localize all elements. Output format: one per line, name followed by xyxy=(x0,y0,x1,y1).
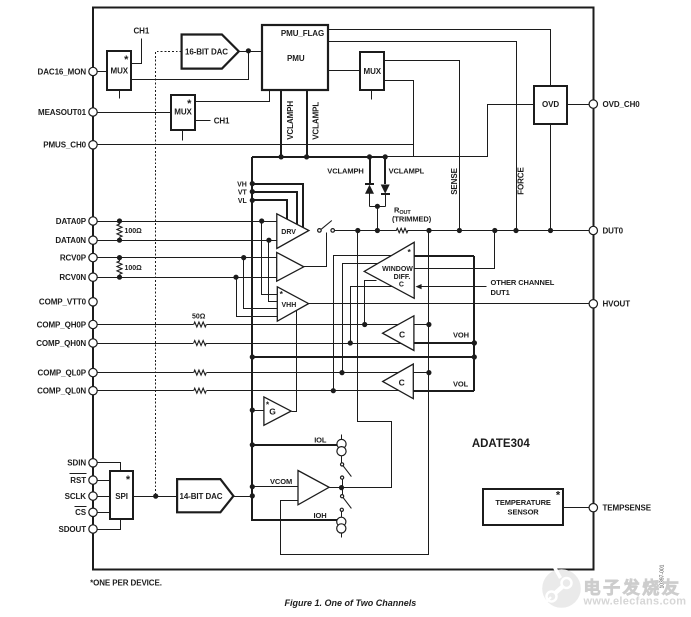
switch S2 pole a xyxy=(341,463,344,466)
svg-text:TEMPERATURE: TEMPERATURE xyxy=(495,498,551,507)
node DAC16 output junction xyxy=(246,48,251,53)
svg-text:OVD_CH0: OVD_CH0 xyxy=(603,100,641,109)
svg-text:VCLAMPL: VCLAMPL xyxy=(311,102,320,140)
svg-text:DAC16_MON: DAC16_MON xyxy=(38,67,87,76)
svg-text:VOH: VOH xyxy=(453,331,469,340)
pin MEASOUT01 xyxy=(38,108,97,117)
wire S2 to VCOM node xyxy=(342,480,344,488)
node DUT0 line x357.8 xyxy=(355,228,360,233)
pin COMP_QH0P xyxy=(37,320,98,329)
svg-text:电子发烧友: 电子发烧友 xyxy=(584,578,682,598)
wire RCV0P branch to VHH xyxy=(244,258,278,309)
label IOH xyxy=(314,511,327,520)
switch S3 lever xyxy=(343,498,351,509)
wire level bus to G xyxy=(253,410,264,412)
node RCV0P branch xyxy=(241,255,246,260)
svg-text:VT: VT xyxy=(238,189,248,196)
wire VCOM node to S3 xyxy=(342,490,344,495)
wire 14-BIT DAC to level bus xyxy=(234,496,253,498)
window comparator U4 xyxy=(364,242,414,298)
resistor R3 Rout trimmed xyxy=(392,205,432,232)
label VCOM xyxy=(270,477,292,486)
wire WD input from feedback bus xyxy=(414,255,474,257)
wire diode join to DUT0 line xyxy=(377,207,379,231)
wire DUT0 comparator feed loop xyxy=(281,231,429,555)
svg-text:IOL: IOL xyxy=(314,435,327,444)
svg-text:VH: VH xyxy=(237,181,247,188)
node WD tap B to COMP_QL0P xyxy=(339,370,344,375)
wire OVD bottom to DUT0 line xyxy=(550,124,552,231)
wire RST to SPI xyxy=(98,480,110,482)
node R2 bottom xyxy=(117,275,122,280)
svg-text:SENSE: SENSE xyxy=(450,167,459,194)
pin COMP_QH0N xyxy=(36,339,97,348)
wire VH to DRV xyxy=(252,184,303,228)
svg-text:50Ω: 50Ω xyxy=(192,314,206,321)
svg-text:VCLAMPH: VCLAMPH xyxy=(286,101,295,140)
comparator U6 C xyxy=(383,364,414,399)
switch S2 pole b xyxy=(341,476,344,479)
resistor R2 100ohm xyxy=(117,258,142,278)
mux U3 bottom stub xyxy=(371,90,373,100)
switch S3 pole b xyxy=(340,508,343,511)
svg-text:CH1: CH1 xyxy=(214,116,230,125)
pin COMP_QL0N xyxy=(37,387,97,396)
label VL xyxy=(238,198,248,205)
pin SCLK xyxy=(65,492,98,501)
pin DATA0N xyxy=(55,236,97,245)
comparator feedback vertical xyxy=(473,256,475,391)
temperature sensor block xyxy=(483,489,563,525)
comparator U5 C xyxy=(383,316,414,351)
node DUT0 line x550.5 xyxy=(548,228,553,233)
svg-text:SDOUT: SDOUT xyxy=(58,525,86,534)
svg-text:COMP_QH0N: COMP_QH0N xyxy=(36,339,86,348)
wire VCLAMPH from PMU xyxy=(280,90,282,157)
wire DATA0P branch to VHH xyxy=(262,222,278,295)
svg-text:*ONE PER DEVICE.: *ONE PER DEVICE. xyxy=(90,578,162,587)
amp G xyxy=(264,397,291,425)
current source IOH xyxy=(337,517,346,537)
svg-text:VCLAMPL: VCLAMPL xyxy=(389,166,425,175)
node VOL top input xyxy=(426,370,431,375)
svg-text:HVOUT: HVOUT xyxy=(603,300,631,309)
label CH1 (top) xyxy=(134,27,150,36)
svg-text:CS: CS xyxy=(75,508,87,517)
svg-text:SENSOR: SENSOR xyxy=(508,507,540,516)
note ONE PER DEVICE xyxy=(90,578,162,587)
svg-text:100Ω: 100Ω xyxy=(125,265,143,272)
OVD block xyxy=(534,86,567,124)
svg-text:14-BIT DAC: 14-BIT DAC xyxy=(179,492,222,501)
node DUT0 line x377.4 xyxy=(375,228,380,233)
node VH xyxy=(250,181,255,186)
node DATA0N branch xyxy=(266,238,271,243)
wire MUX U1 output to DAC16 node xyxy=(132,51,249,80)
switch S3 pole a xyxy=(341,495,344,498)
wire OVD to OVD_CH0 xyxy=(568,104,590,106)
pin COMP_QL0P xyxy=(38,368,98,377)
wire level bus to IOL xyxy=(252,444,337,446)
node R2 top xyxy=(117,255,122,260)
PMU block xyxy=(262,25,328,90)
svg-text:MUX: MUX xyxy=(364,67,382,76)
node WD tap D to COMP_QH0N xyxy=(348,340,353,345)
pin DAC16_MON xyxy=(38,67,98,76)
wire COMP_QL0N row xyxy=(98,388,475,393)
outer boundary box xyxy=(93,8,593,570)
node feedback at QH0N xyxy=(472,340,477,345)
svg-text:FORCE: FORCE xyxy=(517,167,526,195)
svg-text:VHH: VHH xyxy=(282,302,297,309)
wire RCV0N row xyxy=(98,277,277,279)
svg-text:Figure 1. One of Two Channels: Figure 1. One of Two Channels xyxy=(285,598,417,608)
pin DUT0 xyxy=(589,226,624,235)
node WD tap A to COMP_QL0N xyxy=(331,388,336,393)
node DUT0 line x494.8 xyxy=(492,228,497,233)
wire diode join xyxy=(370,206,386,208)
node DAC14 at level bus xyxy=(250,493,255,498)
wire MEASOUT01 to MUX U2 xyxy=(98,112,172,114)
node VCOM input xyxy=(250,484,255,489)
svg-text:COMP_QH0P: COMP_QH0P xyxy=(37,320,87,329)
wire WD lower tap C xyxy=(365,281,377,325)
switch S1 lever xyxy=(321,221,332,230)
amp VHH xyxy=(277,287,308,321)
svg-text:MUX: MUX xyxy=(111,67,129,76)
pin SDIN xyxy=(67,459,97,468)
svg-text:CH1: CH1 xyxy=(134,27,150,36)
wire Rout to DUT0 pin xyxy=(408,230,590,232)
mux U2 xyxy=(171,95,195,130)
wire WD input from DUT0 xyxy=(415,231,495,269)
pin RCV0N xyxy=(59,273,97,282)
node R1 bottom xyxy=(117,238,122,243)
label VCLAMPH (diode) xyxy=(327,166,363,175)
svg-text:RCV0N: RCV0N xyxy=(59,273,86,282)
svg-text:*: * xyxy=(124,54,129,66)
wire RCV0N branch to VHH xyxy=(237,278,278,317)
wire MUX U3 to OVD via PMUS node xyxy=(385,81,534,157)
svg-text:VL: VL xyxy=(238,198,248,205)
wire SCLK to SPI xyxy=(98,496,110,498)
node DUT0 line x459.4 xyxy=(457,228,462,233)
watermark elecfans logo and text xyxy=(541,566,687,609)
mux U3 xyxy=(360,52,384,90)
wire CS to SPI xyxy=(98,512,110,514)
diode D3 VCLAMPL xyxy=(381,157,390,207)
svg-text:COMP_QL0P: COMP_QL0P xyxy=(38,369,87,378)
svg-text:PMU_FLAG: PMU_FLAG xyxy=(281,29,324,38)
svg-text:C: C xyxy=(399,378,405,388)
svg-text:C: C xyxy=(399,329,405,339)
wire COMP_QH0N row xyxy=(98,341,475,346)
svg-text:*: * xyxy=(187,98,192,110)
wire OTHER CHANNEL DUT1 arrow xyxy=(416,284,487,289)
16-bit DAC D1 xyxy=(182,35,239,69)
pin COMP_VTT0 xyxy=(39,298,97,307)
14-bit DAC D4 xyxy=(177,479,233,512)
wire MUX U3 to SENSE line xyxy=(385,61,460,231)
node DUT0 line x429 xyxy=(426,228,431,233)
node VCLAMPH junction xyxy=(279,154,284,159)
label ADATE304 xyxy=(472,438,531,450)
label VOL xyxy=(453,380,469,389)
wire DATA0N branch to VHH xyxy=(269,241,278,302)
pin OVD_CH0 xyxy=(589,100,640,109)
svg-text:PMU: PMU xyxy=(287,54,305,63)
svg-text:www.elecfans.com: www.elecfans.com xyxy=(583,596,687,608)
pin HVOUT xyxy=(589,300,630,309)
mux U1 xyxy=(107,51,131,90)
wire MUX U2 output to PMU bottom xyxy=(195,91,270,102)
wire VHH output to HVOUT xyxy=(309,303,590,305)
label VCLAMPH (rotated) xyxy=(286,101,295,140)
wire temperature sensor to TEMPSENSE xyxy=(564,507,590,509)
pin CS xyxy=(75,507,98,518)
pin SDOUT xyxy=(58,525,97,534)
node feedback at 357 xyxy=(472,354,477,359)
switch S2 lever xyxy=(343,466,351,477)
label IOL xyxy=(314,435,327,444)
SPI block xyxy=(110,471,133,519)
wire level bus to comparator feedback xyxy=(252,356,474,358)
node diode top L xyxy=(383,154,388,159)
wire CH1 to MUX U1 xyxy=(132,39,142,64)
svg-text:(TRIMMED): (TRIMMED) xyxy=(392,215,432,224)
wire VOL lower input thick xyxy=(413,390,474,392)
wire receiver output to switch xyxy=(304,233,327,267)
wire DAC16_MON to MUX U1 xyxy=(98,71,108,73)
svg-text:IOH: IOH xyxy=(314,511,327,520)
wire MUX U2 to CH1 xyxy=(195,120,211,122)
wire PMU_FLAG to OVD top xyxy=(328,30,551,87)
receiver amp xyxy=(277,252,304,281)
svg-text:SCLK: SCLK xyxy=(65,492,87,501)
svg-text:DIFF.: DIFF. xyxy=(394,274,411,281)
svg-text:PMUS_CH0: PMUS_CH0 xyxy=(43,141,86,150)
svg-text:VCOM: VCOM xyxy=(270,477,292,486)
mux U1 bottom stub xyxy=(119,90,121,99)
current source IOL xyxy=(337,435,346,463)
pin RCV0P xyxy=(60,253,97,262)
node VOH bottom input xyxy=(472,340,477,345)
wire DUT0 sense to VCOM node xyxy=(330,231,392,488)
label CH1 (mid) xyxy=(214,116,230,125)
node VL xyxy=(250,198,255,203)
mux U2 bottom stub xyxy=(182,130,184,141)
node VCLAMPL junction xyxy=(304,154,309,159)
svg-text:ADATE304: ADATE304 xyxy=(472,438,531,450)
wire clamp bus xyxy=(252,156,414,159)
wire DATA0N row xyxy=(98,240,277,242)
svg-text:VCLAMPH: VCLAMPH xyxy=(327,166,363,175)
wire WD upper tap A xyxy=(334,256,392,391)
svg-text:DUT0: DUT0 xyxy=(603,226,624,235)
label VT xyxy=(238,189,248,196)
amp VCOM xyxy=(298,471,329,505)
wire VCLAMPL from PMU xyxy=(306,90,308,157)
wire G output to VHH xyxy=(292,311,297,412)
label FORCE (rotated) xyxy=(517,167,526,195)
caption Figure 1 xyxy=(285,598,417,608)
svg-text:VOL: VOL xyxy=(453,380,469,389)
label VCLAMPL (diode) xyxy=(389,166,425,175)
node level bus at 357 xyxy=(250,354,255,359)
node R1 top xyxy=(117,218,122,223)
svg-text:OVD: OVD xyxy=(542,100,559,109)
wire VT to DRV xyxy=(252,192,297,224)
wire switch to Rout xyxy=(335,230,397,232)
node VT xyxy=(250,189,255,194)
label VCLAMPL (rotated) xyxy=(311,102,320,140)
wire SDOUT to SPI xyxy=(98,520,121,530)
driver DRV xyxy=(277,214,309,249)
wire RCV0P row xyxy=(98,257,277,259)
svg-text:OTHER CHANNEL: OTHER CHANNEL xyxy=(491,278,555,287)
svg-text:DATA0N: DATA0N xyxy=(55,236,86,245)
wire COMP_QH0P row xyxy=(98,322,429,327)
label VH xyxy=(237,181,247,188)
pin RST xyxy=(70,474,98,486)
wire level bus vertical xyxy=(252,157,337,520)
node WD tap C to COMP_QH0P xyxy=(362,322,367,327)
svg-text:RST: RST xyxy=(70,476,86,485)
wire SPI to 14-BIT DAC xyxy=(134,496,178,498)
svg-text:*: * xyxy=(126,474,131,486)
svg-text:COMP_QL0N: COMP_QL0N xyxy=(37,387,86,396)
wire PMU to MUX U3 xyxy=(328,70,361,72)
svg-text:100Ω: 100Ω xyxy=(125,228,143,235)
svg-text:DUT1: DUT1 xyxy=(491,288,510,297)
label OTHER CHANNEL DUT1 xyxy=(491,278,555,297)
svg-text:WINDOW: WINDOW xyxy=(382,266,413,273)
node G input xyxy=(250,408,255,413)
svg-text:*: * xyxy=(556,489,561,501)
svg-text:C: C xyxy=(399,281,404,288)
node VOH top input xyxy=(426,322,431,327)
wire S3 to IOH source xyxy=(341,512,343,518)
wire level bus to VCOM xyxy=(253,486,299,488)
node RCV0N branch xyxy=(233,275,238,280)
node DUT0 line x516 xyxy=(513,228,518,233)
svg-text:G: G xyxy=(269,407,276,417)
wire WD upper tap B xyxy=(343,264,379,373)
wire COMP_QL0P row xyxy=(98,370,429,375)
wire VOH lower input thick xyxy=(414,342,474,344)
svg-text:MEASOUT01: MEASOUT01 xyxy=(38,108,87,117)
wire WD lower tap D xyxy=(351,287,393,344)
svg-text:16-BIT DAC: 16-BIT DAC xyxy=(185,47,228,56)
svg-text:SDIN: SDIN xyxy=(67,459,86,468)
svg-text:COMP_VTT0: COMP_VTT0 xyxy=(39,298,87,307)
label SENSE (rotated) xyxy=(450,167,459,194)
node diode join xyxy=(375,204,380,209)
svg-text:RCV0P: RCV0P xyxy=(60,254,87,263)
node VCOM output junction xyxy=(339,485,344,490)
pin TEMPSENSE xyxy=(589,504,652,513)
wire 16-BIT DAC to PMU xyxy=(239,51,262,53)
label VOH xyxy=(453,331,469,340)
node DATA0P branch xyxy=(259,218,264,223)
svg-text:TEMPSENSE: TEMPSENSE xyxy=(603,504,652,513)
dashed control line SPI to 16-BIT DAC xyxy=(156,52,182,497)
svg-text:DRV: DRV xyxy=(281,229,296,236)
wire VL to DRV xyxy=(252,200,287,219)
wire PMU force to FORCE line xyxy=(328,42,517,231)
diode D2 VCLAMPH xyxy=(365,157,374,207)
node IOL tap xyxy=(250,442,255,447)
pin DATA0P xyxy=(56,217,97,226)
wire PMUS_CH0 to OVD route xyxy=(98,144,414,146)
wire DATA0P row xyxy=(98,221,277,223)
label 50ohm xyxy=(192,314,206,321)
wire SDIN to SPI xyxy=(98,463,121,472)
svg-text:SPI: SPI xyxy=(115,492,128,501)
figure code 10397-001 xyxy=(660,564,666,588)
node SPI dashed junction xyxy=(153,494,158,499)
switch S1 pole b xyxy=(331,229,335,233)
resistor R1 100ohm xyxy=(117,222,142,241)
svg-text:DATA0P: DATA0P xyxy=(56,217,87,226)
pin PMUS_CH0 xyxy=(43,141,97,150)
node diode top H xyxy=(367,154,372,159)
switch S1 pole a xyxy=(318,229,322,233)
